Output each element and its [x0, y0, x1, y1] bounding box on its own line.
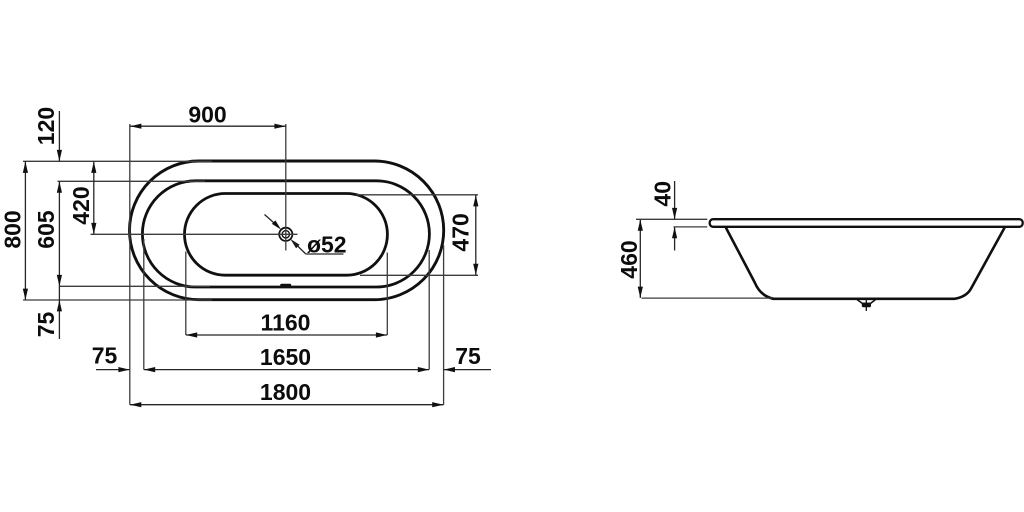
svg-text:460: 460 — [616, 240, 642, 278]
svg-text:75: 75 — [92, 343, 118, 369]
svg-text:420: 420 — [68, 186, 94, 224]
svg-text:1800: 1800 — [260, 379, 311, 405]
svg-text:ø52: ø52 — [307, 232, 347, 258]
svg-text:1650: 1650 — [260, 344, 311, 370]
svg-text:470: 470 — [448, 213, 474, 251]
svg-text:800: 800 — [0, 210, 25, 248]
svg-text:40: 40 — [650, 181, 676, 207]
svg-text:900: 900 — [188, 102, 226, 128]
svg-text:75: 75 — [33, 312, 59, 338]
svg-text:75: 75 — [455, 343, 481, 369]
svg-text:605: 605 — [33, 210, 59, 249]
svg-text:120: 120 — [33, 107, 59, 145]
svg-text:1160: 1160 — [261, 310, 311, 336]
